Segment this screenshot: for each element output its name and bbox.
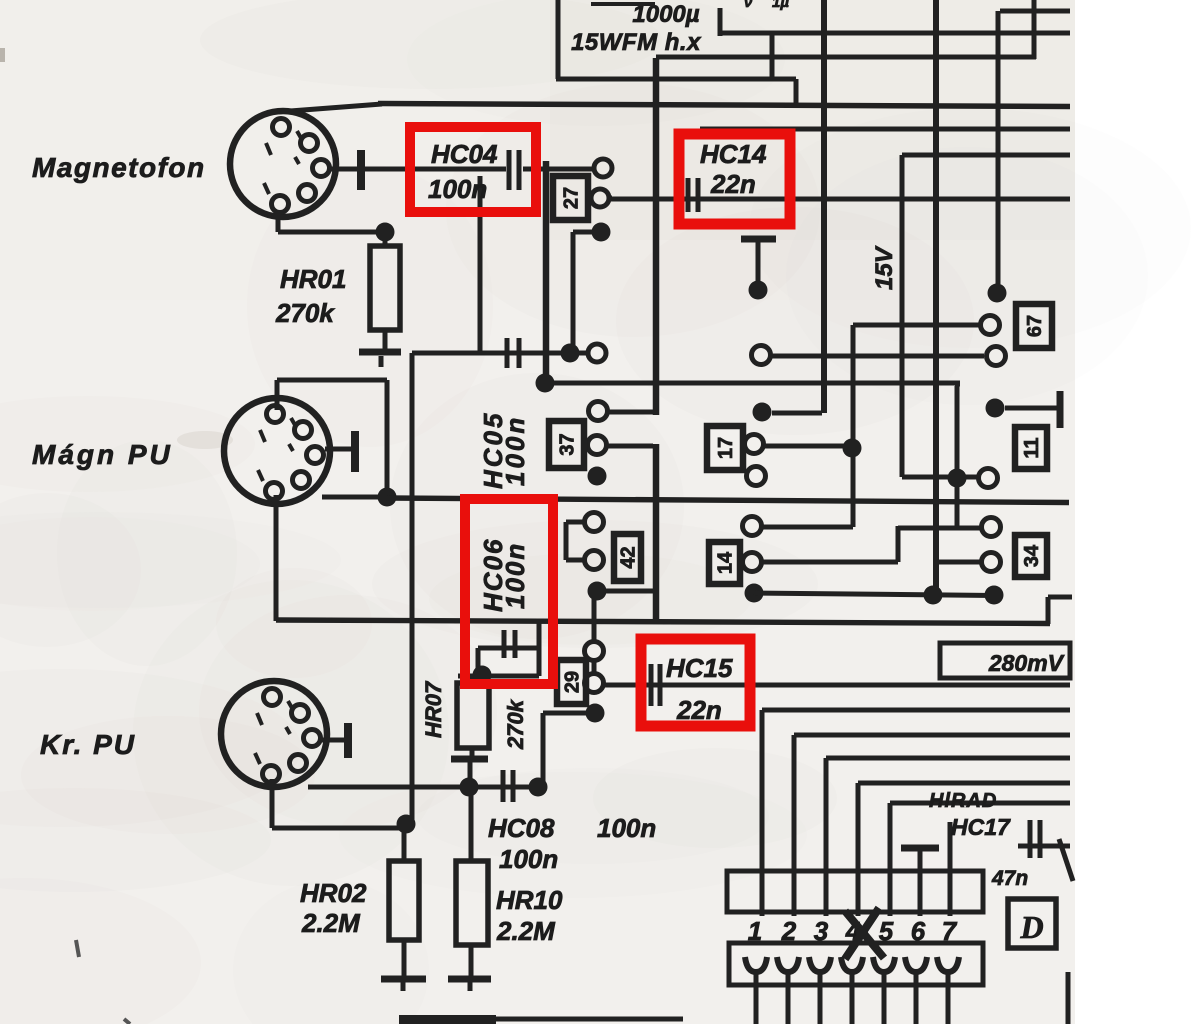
- wire: y477 row: [902, 475, 979, 480]
- node dot x482 y675: [473, 666, 492, 685]
- wire: y846 stub: [1018, 844, 1070, 849]
- wire: DIN1 loop y232: [278, 230, 385, 235]
- wire: bus y200: [609, 197, 1070, 202]
- node dot x597 y591: [588, 582, 607, 601]
- chassis bar DIN3: [344, 723, 352, 758]
- wire: thick vertical x546: [543, 161, 550, 383]
- diagonal mark right: [1059, 839, 1073, 881]
- wire: stub dot591 down: [592, 598, 597, 643]
- node dot x545 y383: [536, 374, 555, 393]
- node junction HR01 top: [376, 223, 395, 242]
- svg-text:HC04: HC04: [431, 139, 498, 169]
- svg-text:2.2M: 2.2M: [496, 916, 556, 946]
- node circle x598 y411: [589, 402, 608, 421]
- node dot x469 y787: [460, 778, 479, 797]
- node circle x761 y355: [752, 346, 771, 365]
- wire: bus y155: [902, 153, 1070, 158]
- wire: vertical x902: [900, 155, 905, 477]
- wire: DIN2 box right: [385, 380, 390, 497]
- wire: HC05 row y353: [412, 351, 590, 356]
- node circle x597 y353: [588, 344, 606, 362]
- wire: HR02 bottom lead: [402, 940, 407, 977]
- node dot below HC14: [749, 281, 768, 300]
- connector Magnetofon DIN socket: [230, 111, 336, 217]
- svg-text:100n: 100n: [428, 174, 487, 204]
- wire: vertical x543: [541, 713, 546, 787]
- node circle x594 y560: [585, 551, 604, 570]
- svg-text:37: 37: [557, 433, 579, 455]
- stub below HR01 bar: [379, 356, 384, 367]
- junction box 34: [1015, 535, 1047, 577]
- node circle x990 y325: [981, 316, 1000, 335]
- wire: small top box fragment: [591, 2, 655, 6]
- T terminal bar col6: [901, 845, 939, 852]
- svg-text:29: 29: [562, 671, 584, 693]
- svg-text:HR10: HR10: [496, 885, 563, 915]
- wire: HR07 bottom lead: [470, 748, 475, 757]
- wire: y562 right segment: [936, 560, 982, 565]
- capacitor HC06 plates: [502, 630, 507, 658]
- svg-text:11: 11: [1021, 437, 1043, 458]
- wire: main thick vertical x656 upper: [653, 58, 660, 415]
- pin 3 DIN3: [304, 730, 321, 747]
- svg-text:2.2M: 2.2M: [301, 908, 361, 938]
- connector forks and stems: [745, 957, 767, 972]
- svg-text:D: D: [1019, 909, 1043, 945]
- svg-text:15V: 15V: [871, 245, 898, 290]
- wire: vertical x898 low: [896, 526, 901, 562]
- wire: vertical x480 tap: [478, 176, 483, 353]
- faint smudge mid: [177, 431, 233, 449]
- resistor HR10: [456, 861, 488, 945]
- node circle x991 y562: [982, 553, 1001, 572]
- node dot x406 y824: [397, 815, 416, 834]
- capacitor HC14 plates: [686, 178, 691, 212]
- wire: y594 bus: [754, 593, 994, 596]
- pin tick marks DIN3: [257, 713, 262, 725]
- svg-text:Mágn PU: Mágn PU: [32, 439, 173, 470]
- wire: y408 to T bar: [1005, 406, 1057, 411]
- node circle x756 y476: [747, 467, 766, 486]
- wire: HR01 bottom lead: [383, 330, 388, 350]
- wire: DIN2 box bottom: [322, 495, 387, 500]
- node circle x600 y198: [591, 189, 609, 207]
- wire: dot232 stub left: [573, 230, 593, 235]
- wire: feed y735 col2: [794, 733, 1070, 738]
- T terminal stem: [756, 242, 761, 283]
- junction box 11: [1015, 427, 1047, 469]
- connector block lower box: [729, 943, 983, 985]
- wire: dot591 to vert: [605, 589, 653, 594]
- wire: stub bar to dot: [468, 762, 473, 787]
- wire: y621 end jog up: [1046, 597, 1051, 624]
- svg-text:HC14: HC14: [700, 139, 767, 169]
- capacitor HC05 plates: [505, 338, 510, 368]
- pin 5 DIN1: [272, 196, 289, 213]
- wire: HC04 right to node: [523, 167, 594, 172]
- wire: long bus y621: [276, 620, 1050, 624]
- junction box 17: [707, 426, 743, 470]
- pin 4 DIN2: [293, 472, 310, 489]
- wire: main thick vertical x656 lower: [653, 444, 660, 621]
- wire: DIN2 top stub: [275, 380, 280, 410]
- wire: y597 stub: [1048, 595, 1072, 600]
- wire: vertical x573: [571, 232, 576, 354]
- resistor HR07: [457, 683, 489, 748]
- node circle x597 y445: [588, 436, 607, 455]
- wire: bus y129 right of HC14: [700, 127, 1070, 132]
- pin 5 DIN2: [266, 483, 283, 500]
- node circle x603 y168: [594, 159, 612, 177]
- node dot x754 y593: [745, 584, 764, 603]
- wire: y528 to circle: [898, 526, 981, 531]
- svg-text:100n: 100n: [597, 813, 656, 843]
- chassis bar DIN1: [357, 150, 365, 190]
- T terminal below HC14 bar: [741, 236, 776, 243]
- junction box 42: [614, 534, 641, 581]
- highlight box HC06: [465, 499, 553, 684]
- connector block upper box: [727, 871, 983, 912]
- wire: stub x478: [476, 648, 481, 676]
- scan tone: [233, 880, 429, 1029]
- wire: HR02 top lead: [402, 824, 407, 861]
- svg-text:1µ: 1µ: [772, 0, 789, 11]
- resistor HR01: [370, 246, 400, 330]
- node dot x762 y412: [753, 403, 772, 422]
- wire: DIN3 loop y828: [272, 826, 410, 831]
- svg-text:270k: 270k: [275, 298, 335, 328]
- wire: left edge of 1000u box: [556, 0, 561, 79]
- node circle x754 y444: [745, 435, 764, 454]
- wire: bottom right stub: [1066, 972, 1071, 1024]
- node circle x752 y526: [743, 517, 762, 536]
- node circle x594 y683: [585, 674, 604, 693]
- pin tick marks DIN1: [266, 143, 271, 155]
- svg-text:HR02: HR02: [300, 878, 367, 908]
- wire: bottom edge of 1000u box: [556, 77, 796, 82]
- capacitor HC15 plates: [649, 664, 654, 706]
- pin tick marks DIN2: [260, 430, 265, 442]
- svg-text:34: 34: [1021, 544, 1043, 567]
- wire: bus y56: [656, 55, 1036, 60]
- pin 2 DIN1: [301, 135, 318, 152]
- svg-text:17: 17: [715, 437, 737, 459]
- highlight box HC15: [641, 639, 750, 726]
- wire: vertical x412 long: [410, 353, 415, 824]
- node circle x594 y522: [585, 513, 604, 532]
- node dot x933 y595: [924, 586, 943, 605]
- wire: circle411 to vert: [608, 410, 653, 415]
- wire: y446 to dot852: [764, 444, 845, 449]
- svg-text:42: 42: [618, 546, 640, 568]
- edge smudge left: [0, 48, 5, 62]
- node dot x597 y476: [588, 467, 607, 486]
- wire: circle560 bracket: [566, 558, 584, 563]
- wire: vertical stub x720 top: [718, 8, 723, 36]
- svg-text:280mV: 280mV: [988, 650, 1065, 676]
- node dot DIN2 box corner: [378, 488, 397, 507]
- wire: vertical x936 main: [933, 0, 939, 595]
- pin 3 DIN2: [307, 447, 324, 464]
- wire: DIN3 pin3 to bar: [322, 738, 344, 743]
- node dot x595 y713: [586, 704, 605, 723]
- pin 4 DIN3: [290, 755, 307, 772]
- wire: vertical x772 jog: [770, 33, 775, 79]
- highlight box HC14: [679, 134, 790, 224]
- wire: y676 row: [458, 674, 539, 679]
- wire: HC06 row y648: [478, 646, 540, 651]
- wire: DIN1 bottom pin drop: [276, 212, 281, 232]
- pin 1 DIN1: [273, 119, 290, 136]
- node dot x997 y293: [988, 284, 1007, 303]
- terminal bar below HR10: [448, 976, 491, 983]
- capacitor HC17 plates: [1028, 820, 1033, 858]
- svg-text:HC08: HC08: [488, 813, 555, 843]
- small mark bottom left: [76, 940, 79, 957]
- svg-text:22n: 22n: [710, 169, 756, 199]
- connector Kr PU DIN socket: [221, 681, 327, 787]
- capacitor HC04 plates: [507, 150, 512, 190]
- node circle x594 y651: [585, 642, 604, 661]
- svg-text:100n: 100n: [500, 542, 530, 609]
- wire: circle522 left bracket: [566, 520, 584, 525]
- wire: DIN1 bar to HC04: [365, 167, 506, 172]
- junction box 37: [549, 421, 584, 468]
- terminal bar below HR01: [359, 349, 401, 356]
- wire: col7 drop: [948, 822, 953, 916]
- svg-text:HC15: HC15: [666, 653, 733, 683]
- node dot x994 y595: [985, 586, 1004, 605]
- svg-text:Magnetofon: Magnetofon: [32, 152, 206, 183]
- wire: vertical x957: [955, 386, 960, 528]
- wire: y198 from circle: [610, 196, 612, 201]
- highlight box HC04: [410, 127, 536, 212]
- junction box 67: [1016, 304, 1052, 348]
- wire: DIN3 lower pin wire y787: [308, 785, 546, 790]
- wire: vertical x853: [851, 325, 856, 527]
- wire: main vertical x824: [821, 0, 827, 413]
- wire: y383 to main vertical: [545, 381, 960, 386]
- wire: stub circle651 to circle683: [592, 660, 597, 675]
- pin 3 DIN1: [313, 160, 330, 177]
- svg-text:Kr. PU: Kr. PU: [40, 729, 136, 760]
- pin 1 DIN2: [267, 406, 284, 423]
- node circle x996 y356: [987, 347, 1006, 366]
- terminal bar below HR07: [451, 756, 488, 763]
- wire: y562 circle to x898: [762, 560, 898, 565]
- bottom edge bar: [399, 1015, 496, 1024]
- svg-text:14: 14: [715, 551, 737, 574]
- svg-text:100n: 100n: [500, 415, 530, 486]
- svg-text:270k: 270k: [503, 698, 528, 750]
- node circle x991 y527: [982, 518, 1001, 537]
- node dot x995 y408: [986, 399, 1005, 418]
- wire: y527 circle to x853: [762, 525, 853, 530]
- wire: diagonal from DIN1 top to bus: [277, 104, 382, 112]
- scribble X over digits: [845, 911, 884, 958]
- wire: long bus y500: [387, 498, 1069, 503]
- svg-text:ν: ν: [744, 0, 753, 11]
- wire: HR10 top lead: [469, 787, 474, 861]
- node dot x601 y232: [592, 223, 611, 242]
- wire: vertical x539: [537, 621, 542, 676]
- wire: top bus y33: [718, 31, 1070, 36]
- wire: vertical x796 jog: [794, 79, 799, 106]
- wire: DIN3 bottom drop: [270, 779, 275, 828]
- wire: long bus y104 from Magnetofon: [378, 104, 1070, 107]
- svg-text:27: 27: [561, 187, 583, 209]
- wire: circle445 to vert: [607, 444, 653, 449]
- svg-text:22n: 22n: [676, 695, 722, 725]
- svg-text:HlRAD: HlRAD: [929, 790, 997, 812]
- wire: vertical x1034 top right: [1032, 0, 1037, 59]
- pin 5 DIN3: [263, 766, 280, 783]
- wire: feed y783 col4: [858, 781, 1070, 786]
- node circle x752 y562: [743, 553, 762, 572]
- node circle x988 y478: [979, 469, 998, 488]
- wire: DIN2 pin3 to bar: [325, 447, 351, 452]
- wire: HR10 bottom lead: [469, 945, 474, 977]
- svg-text:100n: 100n: [499, 844, 558, 874]
- node dot x570 y353: [561, 344, 580, 363]
- small mark bottom left 2: [124, 1019, 130, 1024]
- svg-text:47n: 47n: [991, 867, 1028, 890]
- wire: HR01 top lead: [383, 232, 388, 246]
- wire: y713 row: [543, 711, 588, 716]
- junction box 27: [553, 176, 588, 220]
- capacitor HC08 plates: [501, 770, 506, 802]
- pin 2 DIN3: [292, 705, 309, 722]
- junction box 14: [709, 542, 740, 584]
- wire: feed y803 col5: [890, 801, 1070, 806]
- svg-text:67: 67: [1024, 315, 1046, 337]
- svg-text:HR01: HR01: [280, 264, 346, 294]
- wire: DIN2 bottom drop: [274, 495, 279, 621]
- node dot x957 y478: [948, 469, 967, 488]
- junction box 29: [557, 660, 586, 704]
- svg-text:HC17: HC17: [951, 814, 1011, 840]
- pin 1 DIN3: [264, 689, 281, 706]
- terminal bar below HR02: [381, 976, 426, 983]
- wire: DIN2 box top: [277, 378, 387, 383]
- wire: feed y758 col3: [826, 756, 1070, 761]
- node dot x538 y787: [529, 778, 548, 797]
- connector Magn PU DIN socket: [224, 398, 330, 504]
- wire: vertical x997 top: [996, 11, 1001, 284]
- resistor HR02: [389, 861, 419, 940]
- svg-text:HR07: HR07: [421, 680, 446, 738]
- node dot x852 y448: [843, 439, 862, 458]
- box D: [1008, 899, 1056, 948]
- wire: top right bus y11: [1000, 9, 1070, 14]
- wire: y384 right segment: [955, 382, 960, 387]
- wire: y685 row: [604, 683, 1070, 688]
- wire: DIN1 pin3 to chassis bar: [330, 167, 357, 172]
- wire: feed y710 col1: [762, 708, 1070, 713]
- pin 4 DIN1: [299, 185, 316, 202]
- wire: HR07 top stub: [470, 676, 475, 683]
- wire: y413 dot to corner: [772, 411, 822, 416]
- wire: y325 to circle: [853, 323, 981, 328]
- chassis bar DIN2: [351, 431, 359, 472]
- wire: y356 to right circle: [771, 354, 984, 359]
- T terminal bar right: [1057, 391, 1064, 428]
- svg-text:15WFM h.x: 15WFM h.x: [571, 29, 702, 56]
- box 280mV: [940, 643, 1070, 678]
- pin 2 DIN2: [295, 422, 312, 439]
